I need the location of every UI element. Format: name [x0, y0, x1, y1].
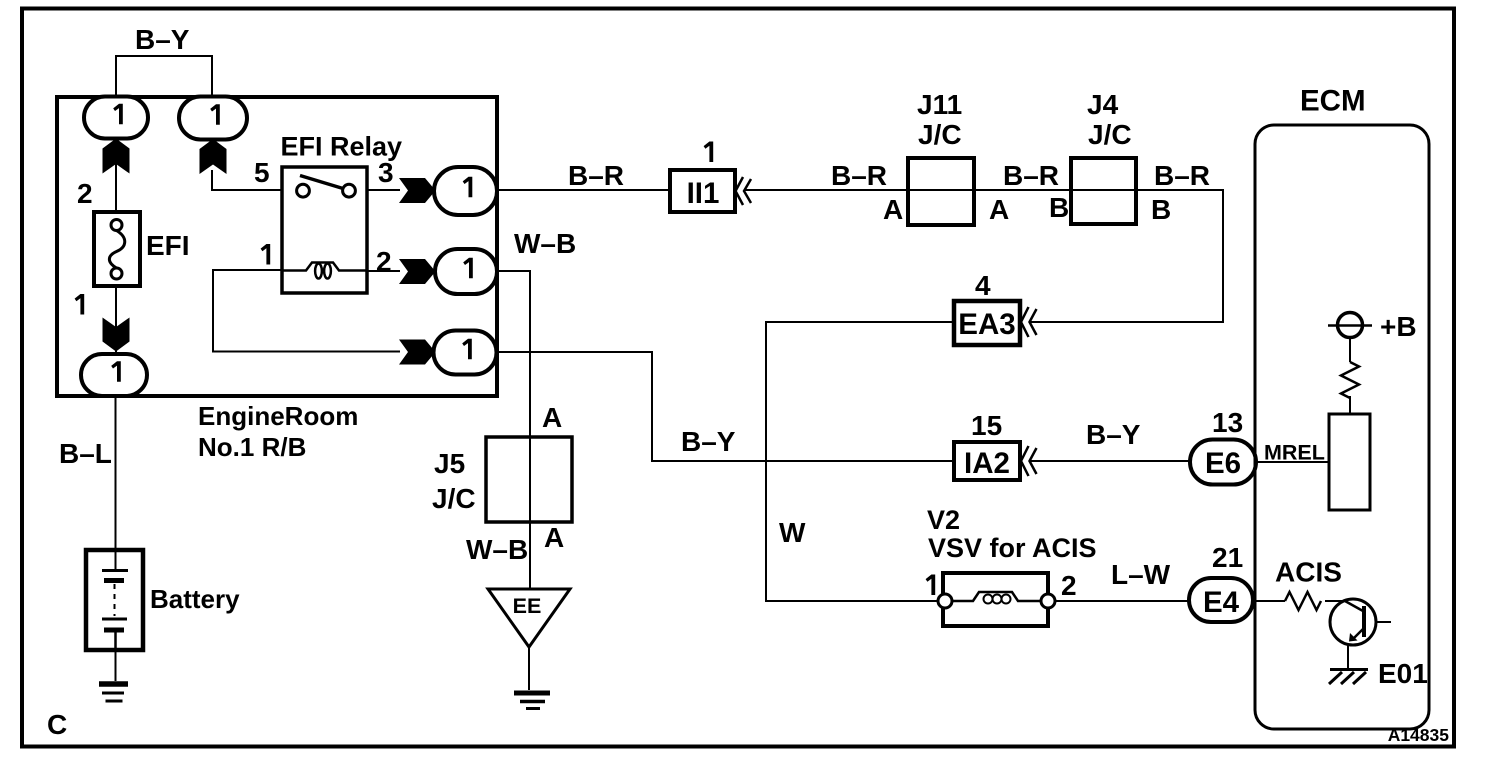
svg-text:EFI: EFI	[146, 230, 190, 261]
svg-text:B–Y: B–Y	[135, 24, 190, 55]
svg-text:W–B: W–B	[466, 534, 528, 565]
svg-text:A14835: A14835	[1388, 725, 1450, 745]
svg-text:W: W	[779, 517, 806, 548]
svg-text:J5: J5	[434, 448, 465, 479]
svg-text:J/C: J/C	[1088, 119, 1132, 150]
svg-text:C: C	[47, 709, 67, 740]
svg-text:3: 3	[378, 157, 394, 188]
svg-text:B: B	[1151, 194, 1171, 225]
svg-text:B–L: B–L	[59, 438, 112, 469]
svg-text:J/C: J/C	[918, 119, 962, 150]
svg-text:EE: EE	[513, 594, 542, 618]
svg-text:E4: E4	[1203, 586, 1240, 619]
svg-text:15: 15	[971, 410, 1002, 441]
svg-text:2: 2	[1061, 570, 1077, 601]
svg-text:4: 4	[975, 270, 991, 301]
svg-text:B: B	[1049, 192, 1069, 223]
svg-text:No.1 R/B: No.1 R/B	[198, 432, 306, 462]
svg-text:J4: J4	[1087, 89, 1119, 120]
svg-text:2: 2	[77, 178, 93, 209]
svg-text:J/C: J/C	[432, 483, 476, 514]
svg-text:B–R: B–R	[568, 160, 624, 191]
svg-text:EA3: EA3	[958, 308, 1015, 341]
svg-text:B–R: B–R	[1154, 160, 1210, 191]
svg-text:ACIS: ACIS	[1275, 557, 1342, 588]
svg-text:VSV for ACIS: VSV for ACIS	[928, 533, 1097, 563]
svg-text:E01: E01	[1378, 658, 1428, 689]
svg-text:+B: +B	[1380, 311, 1417, 342]
svg-text:B–R: B–R	[1003, 160, 1059, 191]
svg-text:L–W: L–W	[1111, 559, 1171, 590]
svg-text:5: 5	[254, 157, 270, 188]
svg-text:A: A	[542, 402, 562, 433]
svg-text:ECM: ECM	[1300, 85, 1366, 118]
svg-text:A: A	[544, 522, 564, 553]
svg-text:A: A	[883, 194, 903, 225]
svg-text:II1: II1	[687, 177, 720, 210]
svg-text:J11: J11	[917, 89, 962, 120]
svg-text:E6: E6	[1205, 447, 1241, 480]
svg-text:Battery: Battery	[150, 584, 240, 614]
svg-text:EngineRoom: EngineRoom	[198, 401, 358, 431]
svg-text:B–Y: B–Y	[1086, 419, 1141, 450]
svg-text:A: A	[989, 194, 1009, 225]
svg-text:B–Y: B–Y	[681, 426, 736, 457]
svg-text:2: 2	[376, 246, 392, 277]
svg-text:13: 13	[1212, 407, 1243, 438]
svg-text:IA2: IA2	[964, 447, 1010, 480]
svg-text:MREL: MREL	[1264, 441, 1325, 465]
svg-text:21: 21	[1212, 542, 1243, 573]
svg-text:B–R: B–R	[831, 160, 887, 191]
svg-text:W–B: W–B	[514, 228, 576, 259]
svg-text:V2: V2	[927, 505, 960, 535]
